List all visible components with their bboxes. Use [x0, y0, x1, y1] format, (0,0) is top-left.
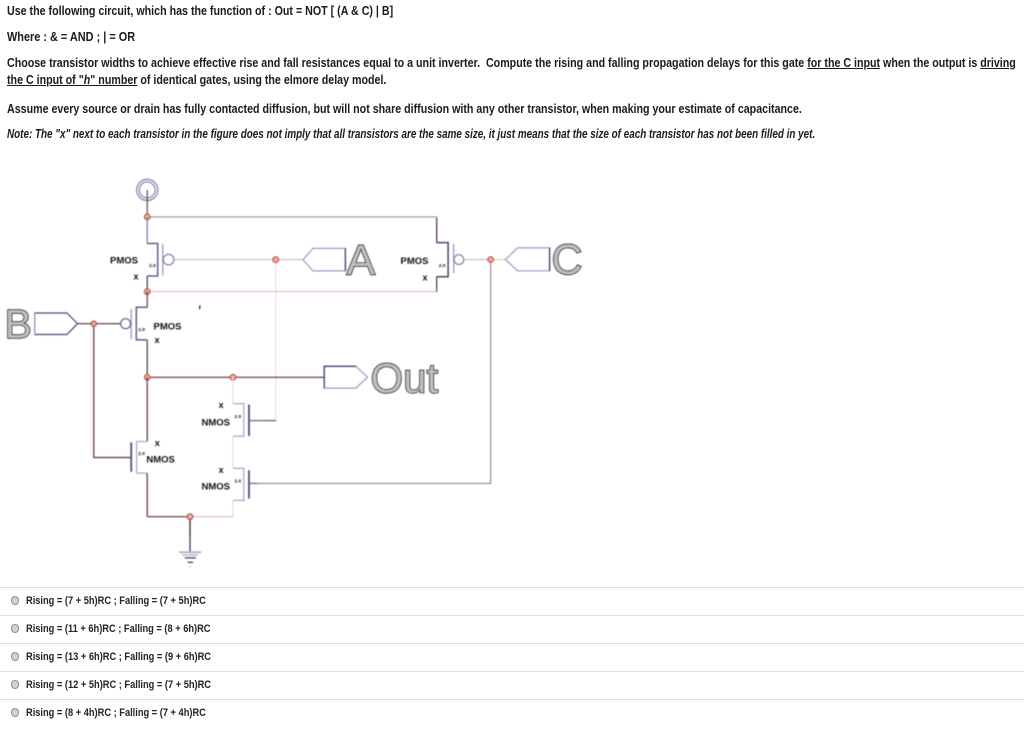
answer options	[0, 587, 1024, 616]
svg-text:Out: Out	[371, 355, 439, 402]
nmos M5 gate plate	[248, 470, 250, 498]
pmos M3 drain lead to Out node	[146, 340, 148, 377]
svg-text:2.0: 2.0	[149, 263, 156, 269]
port C pentagon	[505, 248, 549, 271]
svg-text:x: x	[155, 438, 160, 448]
svg-text:2.0: 2.0	[138, 451, 145, 457]
svg-text:NMOS: NMOS	[202, 417, 231, 428]
pmos M1 gate plate	[162, 244, 164, 276]
wire node N3 down right side to nmos M5 gate	[254, 260, 491, 484]
nmos M4 gate lead blue	[250, 420, 266, 422]
pmos M2 drain lead	[436, 277, 438, 292]
problem text	[7, 3, 867, 20]
node N5 junction	[91, 321, 96, 326]
node GND junction	[187, 514, 193, 520]
node N2 junction	[273, 257, 279, 263]
svg-text:x: x	[219, 465, 224, 475]
wire Out node rail	[147, 376, 324, 378]
wire ground rail left	[147, 516, 190, 518]
wire node N3 to port C	[491, 259, 506, 261]
svg-text:2.0: 2.0	[439, 263, 446, 269]
svg-text:A: A	[347, 237, 376, 285]
pmos M1 gate bubble	[163, 254, 174, 265]
node N1 junction	[144, 214, 150, 220]
nmos M4 source lead	[232, 436, 234, 468]
wire M1 gate to node N2	[174, 259, 303, 261]
port Out dark edges	[324, 366, 356, 388]
svg-text:x: x	[219, 400, 224, 410]
nmos M4 body (A gate)	[233, 404, 244, 437]
pmos M2 body (right top PMOS)	[437, 243, 448, 277]
nmos M6 gate plate	[130, 443, 132, 472]
node OUT junction right	[230, 374, 236, 380]
port A pentagon	[303, 248, 346, 271]
nmos M5 gate lead blue	[250, 482, 257, 484]
wire ground stem lower	[189, 536, 191, 552]
wire port B to node N5	[78, 323, 94, 325]
port C flat edge	[549, 248, 551, 271]
nmos M4 gate plate	[248, 405, 250, 436]
pmos M3 body (middle PMOS, mirrored)	[136, 307, 147, 340]
vdd power symbol	[137, 179, 158, 200]
wire ground rail right	[190, 516, 233, 518]
pmos M2 gate bubble	[454, 255, 464, 265]
wire M2 gate to node N3	[464, 259, 491, 261]
svg-text:NMOS: NMOS	[146, 454, 175, 465]
nmos M6 body (B gate, mirrored)	[137, 442, 148, 474]
nmos M4 gate lead red	[266, 420, 277, 422]
svg-text:PMOS: PMOS	[154, 322, 182, 333]
svg-text:2.0: 2.0	[235, 478, 242, 484]
nmos M6 drain lead from Out node	[146, 377, 148, 441]
port B pentagon	[35, 313, 78, 335]
nmos M6 source lead	[146, 473, 148, 517]
port B flat edge	[34, 313, 36, 335]
svg-text:x: x	[155, 335, 160, 345]
wire mid rail N4 (pmos drains)	[147, 291, 437, 293]
port A flat edge	[344, 248, 346, 271]
node OUT junction left	[144, 374, 150, 380]
wire right corner segment dark	[436, 218, 438, 243]
svg-text:PMOS: PMOS	[401, 256, 429, 267]
svg-text:2.0: 2.0	[235, 414, 242, 420]
pmos M3 source lead from N4	[146, 292, 148, 308]
stray tick mark	[198, 305, 201, 309]
pmos M3 gate plate	[130, 309, 132, 339]
nmos M4 drain lead from Out node	[232, 377, 234, 403]
wire node N5 to pmos M3 gate bubble	[94, 323, 121, 325]
svg-text:2.0: 2.0	[138, 327, 145, 333]
wire VDD stem to node N1	[146, 190, 148, 217]
node N3 junction	[488, 257, 494, 263]
svg-text:C: C	[552, 236, 583, 284]
pmos M1 drain lead	[146, 276, 148, 292]
nmos M5 body (C gate)	[233, 468, 244, 500]
wire top rail node N1 to pmos M2 source	[147, 217, 437, 243]
ground symbol	[179, 552, 201, 566]
wire node N2 down to nmos M4 gate	[275, 260, 277, 421]
wire ground stem upper	[189, 517, 191, 536]
svg-text:x: x	[134, 272, 139, 282]
pmos M1 source lead from N1	[146, 217, 148, 244]
svg-text:x: x	[423, 272, 428, 282]
nmos M5 source lead	[232, 500, 234, 516]
port Out shape	[324, 366, 367, 388]
svg-text:PMOS: PMOS	[110, 256, 138, 267]
wire node N5 down to nmos M6 gate	[94, 324, 131, 458]
svg-text:NMOS: NMOS	[202, 482, 231, 493]
node N4 junction	[144, 289, 150, 295]
pmos M1 body (left top PMOS)	[147, 244, 158, 277]
pmos M3 gate bubble	[121, 319, 131, 329]
svg-text:B: B	[5, 301, 32, 347]
pmos M2 gate plate	[453, 244, 455, 273]
